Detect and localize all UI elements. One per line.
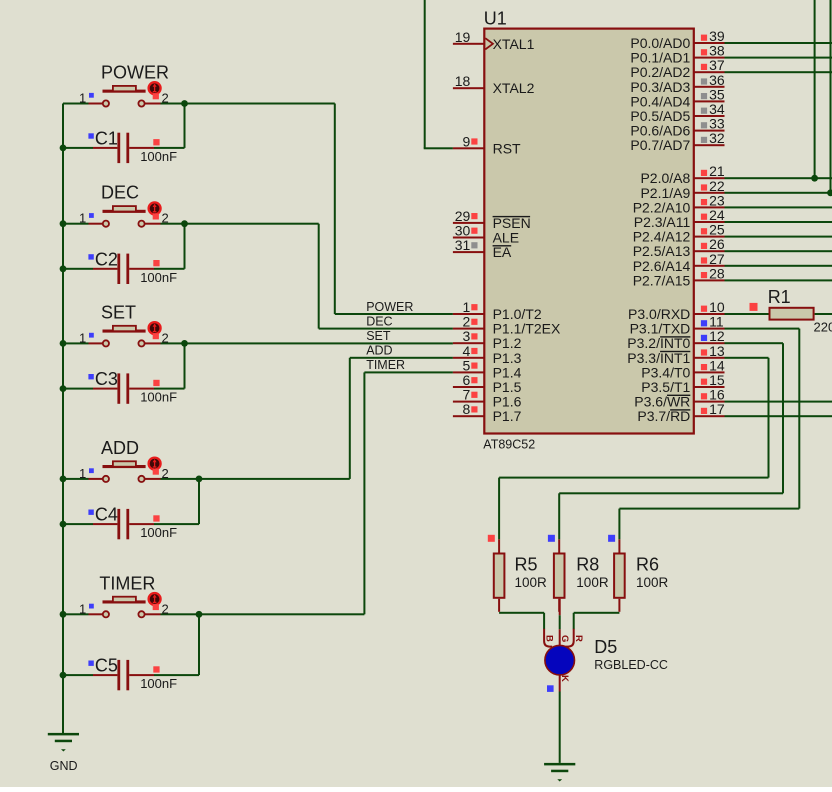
svg-text:24: 24 <box>709 207 725 223</box>
svg-text:R1: R1 <box>768 287 791 307</box>
svg-text:K: K <box>559 675 570 682</box>
svg-text:G: G <box>559 635 570 642</box>
svg-text:22: 22 <box>709 178 725 194</box>
svg-text:9: 9 <box>463 133 471 149</box>
svg-text:8: 8 <box>463 401 471 417</box>
svg-text:RST: RST <box>493 140 521 156</box>
svg-text:P1.1/T2EX: P1.1/T2EX <box>493 321 561 337</box>
svg-text:P2.1/A9: P2.1/A9 <box>640 185 690 201</box>
svg-text:ADD: ADD <box>101 438 139 458</box>
svg-text:32: 32 <box>709 130 725 146</box>
svg-text:31: 31 <box>455 237 471 253</box>
svg-text:35: 35 <box>709 86 725 102</box>
svg-text:P2.4/A12: P2.4/A12 <box>633 229 691 245</box>
svg-text:SET: SET <box>101 302 136 322</box>
svg-text:2: 2 <box>162 601 169 616</box>
svg-text:37: 37 <box>709 57 725 73</box>
svg-text:POWER: POWER <box>101 63 169 83</box>
svg-text:100nF: 100nF <box>140 270 177 285</box>
svg-text:R5: R5 <box>515 554 538 574</box>
svg-text:B: B <box>544 635 555 642</box>
svg-text:2: 2 <box>463 314 471 330</box>
svg-text:10: 10 <box>709 299 725 315</box>
svg-text:P0.4/AD4: P0.4/AD4 <box>630 93 690 109</box>
svg-text:27: 27 <box>709 251 725 267</box>
svg-text:P1.4: P1.4 <box>493 364 522 380</box>
svg-text:5: 5 <box>463 357 471 373</box>
svg-text:SET: SET <box>366 329 391 343</box>
svg-text:100nF: 100nF <box>140 525 177 540</box>
svg-text:ALE: ALE <box>493 230 519 246</box>
svg-text:16: 16 <box>709 387 725 403</box>
svg-text:100nF: 100nF <box>140 390 177 405</box>
svg-text:14: 14 <box>709 357 725 373</box>
svg-text:P2.6/A14: P2.6/A14 <box>633 258 691 274</box>
svg-text:TIMER: TIMER <box>366 358 405 372</box>
svg-text:P1.0/T2: P1.0/T2 <box>493 306 542 322</box>
svg-text:P3.1/TXD: P3.1/TXD <box>630 321 691 337</box>
svg-text:1: 1 <box>463 299 471 315</box>
svg-text:15: 15 <box>709 372 725 388</box>
svg-text:11: 11 <box>709 314 724 330</box>
svg-text:34: 34 <box>709 101 725 117</box>
svg-text:U1: U1 <box>484 9 507 29</box>
svg-text:26: 26 <box>709 236 725 252</box>
svg-text:2: 2 <box>162 330 169 345</box>
svg-text:C4: C4 <box>95 505 118 525</box>
svg-text:2: 2 <box>162 91 169 106</box>
svg-text:36: 36 <box>709 72 725 88</box>
svg-text:17: 17 <box>709 401 725 417</box>
svg-text:2: 2 <box>162 466 169 481</box>
svg-text:38: 38 <box>709 43 725 59</box>
svg-text:P1.6: P1.6 <box>493 394 522 410</box>
svg-text:39: 39 <box>709 28 725 44</box>
svg-text:4: 4 <box>463 343 471 359</box>
svg-text:P1.7: P1.7 <box>493 408 522 424</box>
svg-text:POWER: POWER <box>366 300 413 314</box>
svg-text:P1.5: P1.5 <box>493 379 522 395</box>
svg-text:19: 19 <box>455 29 471 45</box>
svg-text:18: 18 <box>455 73 471 89</box>
svg-text:1: 1 <box>79 601 86 616</box>
svg-text:P2.7/A15: P2.7/A15 <box>633 272 691 288</box>
svg-text:12: 12 <box>709 328 725 344</box>
svg-text:D5: D5 <box>594 637 617 657</box>
svg-text:220: 220 <box>814 319 832 334</box>
svg-text:21: 21 <box>709 163 725 179</box>
svg-text:1: 1 <box>79 91 86 106</box>
svg-text:C1: C1 <box>95 129 118 149</box>
svg-text:23: 23 <box>709 192 725 208</box>
svg-text:100R: 100R <box>636 575 669 590</box>
svg-text:25: 25 <box>709 222 725 238</box>
svg-text:P3.0/RXD: P3.0/RXD <box>628 306 690 322</box>
svg-text:XTAL1: XTAL1 <box>493 36 535 52</box>
svg-text:RGBLED-CC: RGBLED-CC <box>594 658 668 672</box>
svg-text:33: 33 <box>709 116 725 132</box>
svg-text:100R: 100R <box>515 575 548 590</box>
svg-text:P1.2: P1.2 <box>493 335 522 351</box>
svg-text:P2.0/A8: P2.0/A8 <box>640 170 690 186</box>
svg-text:P0.6/AD6: P0.6/AD6 <box>630 123 690 139</box>
svg-text:P0.2/AD2: P0.2/AD2 <box>630 64 690 80</box>
svg-text:2: 2 <box>162 211 169 226</box>
svg-text:30: 30 <box>455 223 471 239</box>
svg-text:100nF: 100nF <box>140 676 177 691</box>
svg-text:3: 3 <box>463 328 471 344</box>
svg-text:P0.3/AD3: P0.3/AD3 <box>630 79 690 95</box>
svg-text:C3: C3 <box>95 369 118 389</box>
svg-text:TIMER: TIMER <box>99 573 155 593</box>
svg-text:P3.4/T0: P3.4/T0 <box>641 364 690 380</box>
svg-text:P2.2/A10: P2.2/A10 <box>633 199 691 215</box>
svg-text:AT89C52: AT89C52 <box>483 438 535 452</box>
svg-text:R8: R8 <box>576 554 599 574</box>
svg-text:P0.1/AD1: P0.1/AD1 <box>630 50 690 66</box>
svg-text:100nF: 100nF <box>140 149 177 164</box>
svg-text:100R: 100R <box>576 575 609 590</box>
svg-text:P0.5/AD5: P0.5/AD5 <box>630 108 690 124</box>
svg-text:1: 1 <box>79 466 86 481</box>
svg-text:P2.5/A13: P2.5/A13 <box>633 243 691 259</box>
svg-text:P3.5/T1: P3.5/T1 <box>641 379 690 395</box>
svg-text:1: 1 <box>79 211 86 226</box>
svg-text:P1.3: P1.3 <box>493 350 522 366</box>
svg-text:XTAL2: XTAL2 <box>493 80 535 96</box>
svg-text:GND: GND <box>50 759 78 773</box>
svg-text:C2: C2 <box>95 249 118 269</box>
svg-text:R6: R6 <box>636 554 659 574</box>
svg-text:6: 6 <box>463 372 471 388</box>
svg-text:13: 13 <box>709 343 725 359</box>
svg-text:P0.0/AD0: P0.0/AD0 <box>630 35 690 51</box>
svg-text:28: 28 <box>709 265 725 281</box>
svg-text:DEC: DEC <box>366 314 392 328</box>
svg-text:ADD: ADD <box>366 344 392 358</box>
svg-text:C5: C5 <box>95 656 118 676</box>
svg-text:29: 29 <box>455 208 471 224</box>
svg-text:7: 7 <box>463 387 471 403</box>
svg-text:R: R <box>573 635 584 642</box>
svg-text:P2.3/A11: P2.3/A11 <box>634 214 691 230</box>
svg-text:DEC: DEC <box>101 183 139 203</box>
svg-text:P0.7/AD7: P0.7/AD7 <box>630 137 690 153</box>
svg-text:1: 1 <box>79 330 86 345</box>
